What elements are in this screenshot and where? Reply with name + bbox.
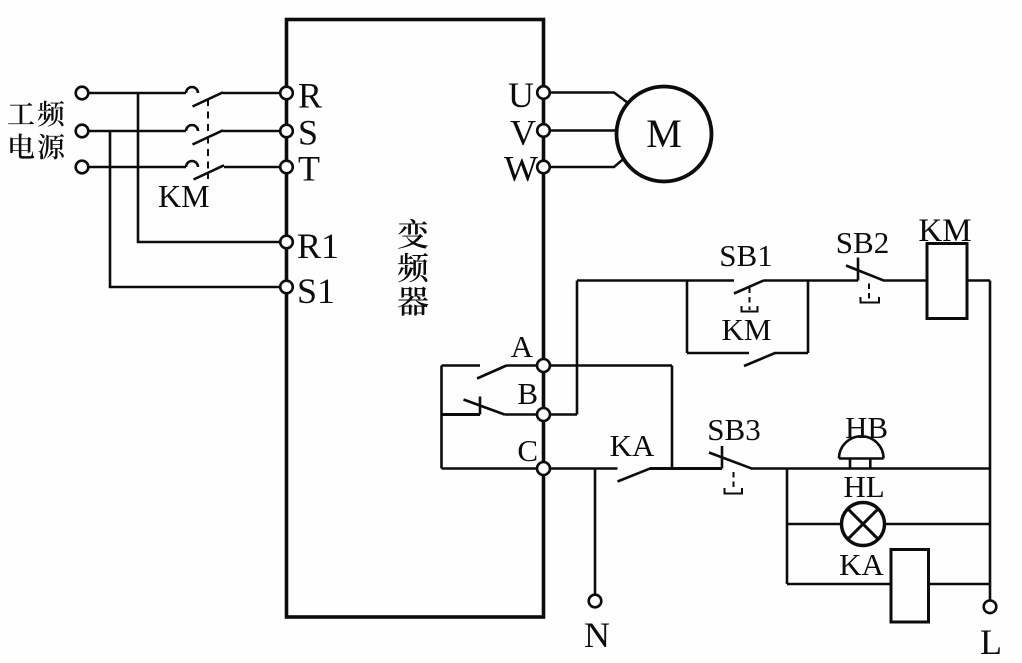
- wire: KM pole3 to terminal T: [224, 166, 281, 169]
- svg-text:T: T: [298, 149, 320, 189]
- terminal U on inverter: [537, 86, 550, 99]
- terminal R1 on inverter: [280, 236, 293, 249]
- wire: lamp network left rail: [786, 469, 789, 585]
- svg-text:M: M: [646, 111, 682, 156]
- label N: [584, 615, 610, 655]
- label KM (main contactor): [158, 178, 210, 214]
- wire: left rail to terminal C: [442, 467, 538, 470]
- terminal C on inverter: [537, 462, 550, 475]
- contactor KM main contact pole 2: [186, 125, 223, 145]
- label HB: [845, 410, 888, 445]
- wire: parallel branch right leg: [807, 281, 810, 354]
- terminal N: [589, 595, 602, 608]
- switch contact to terminal B (closed, with stop bar): [442, 397, 538, 415]
- label C: [517, 433, 538, 468]
- label B: [517, 376, 538, 411]
- inverter box 变频器: [287, 20, 544, 618]
- contactor KM main contact pole 1: [186, 87, 223, 107]
- svg-text:KA: KA: [610, 428, 655, 463]
- wire: R phase tap to terminal R1: [138, 93, 281, 242]
- terminal T on inverter: [280, 161, 293, 174]
- relay contact KA (open): [618, 468, 651, 481]
- switch contact to terminal A (open): [442, 366, 538, 379]
- svg-text:V: V: [510, 113, 536, 153]
- wire: SB1 to SB2: [764, 279, 858, 282]
- label T: [298, 149, 320, 189]
- wire: B to control line junction: [550, 281, 734, 415]
- terminal S1 on inverter: [280, 281, 293, 294]
- label SB1: [719, 238, 772, 273]
- label KA (contact): [610, 428, 655, 463]
- label S: [298, 113, 318, 153]
- svg-text:R: R: [298, 76, 322, 116]
- terminal V on inverter: [537, 124, 550, 137]
- label U: [508, 75, 534, 115]
- wire: phase3 to KM contact: [88, 166, 186, 169]
- svg-text:KM: KM: [918, 213, 971, 249]
- motor M: [617, 87, 712, 182]
- svg-text:C: C: [517, 433, 538, 468]
- wire: KA coil branch left: [787, 583, 891, 586]
- wire: KM coil to right rail: [967, 279, 990, 282]
- svg-text:KM: KM: [158, 178, 210, 214]
- indicator lamp HL: [842, 503, 885, 546]
- terminal B on inverter: [537, 408, 550, 421]
- svg-text:KA: KA: [839, 547, 884, 582]
- svg-text:W: W: [504, 149, 538, 189]
- wire: A to KA line: [550, 366, 672, 469]
- pushbutton SB1 (start, NO): [734, 280, 764, 311]
- label L: [980, 622, 1002, 662]
- svg-text:HB: HB: [845, 410, 888, 445]
- label W: [504, 149, 538, 189]
- wire: parallel branch left leg: [686, 281, 689, 354]
- wire: S phase tap to terminal S1: [110, 131, 281, 287]
- label HL: [843, 469, 884, 504]
- wire: C to KA contact: [550, 467, 618, 470]
- wire: V to motor: [550, 129, 618, 132]
- wire: right rail down to L: [989, 281, 992, 601]
- svg-text:SB2: SB2: [836, 225, 889, 260]
- wire: SB2 to KM coil: [885, 279, 928, 282]
- relay coil KA: [891, 550, 929, 623]
- svg-text:A: A: [511, 329, 534, 364]
- wire: SB3 to right rail (through HB): [752, 467, 990, 470]
- svg-text:SB3: SB3: [707, 412, 760, 447]
- svg-text:B: B: [517, 376, 538, 411]
- svg-text:S: S: [298, 113, 318, 153]
- label KM (coil): [918, 213, 971, 249]
- mechanical link of KM contacts (dashed): [207, 99, 209, 179]
- wire: drop to terminal N: [594, 469, 597, 595]
- wire: W to motor: [550, 156, 627, 167]
- label KM (auxiliary contact): [722, 312, 772, 347]
- label V: [510, 113, 536, 153]
- wire: HL branch: [787, 523, 990, 526]
- svg-text:L: L: [980, 622, 1002, 662]
- terminal L: [984, 601, 997, 614]
- terminal S on inverter: [280, 125, 293, 138]
- contactor coil KM: [927, 244, 967, 319]
- svg-text:HL: HL: [843, 469, 884, 504]
- terminal: mains phase 2: [76, 125, 89, 138]
- label 变频器 (frequency inverter): [398, 219, 428, 316]
- svg-text:U: U: [508, 75, 534, 115]
- wire: KA contact to SB3: [650, 467, 722, 470]
- buzzer HB: [839, 436, 884, 468]
- wire: KM pole2 to terminal S: [223, 130, 281, 133]
- label S1: [297, 271, 335, 311]
- terminal R on inverter: [280, 87, 293, 100]
- svg-text:N: N: [584, 615, 610, 655]
- label KA (coil): [839, 547, 884, 582]
- svg-text:KM: KM: [722, 312, 772, 347]
- svg-text:S1: S1: [297, 271, 335, 311]
- contactor KM auxiliary contact (self-hold, NO): [687, 353, 808, 366]
- contactor KM main contact pole 3: [186, 161, 224, 180]
- label 工频电源 (mains power source): [8, 101, 64, 160]
- svg-text:SB1: SB1: [719, 238, 772, 273]
- terminal W on inverter: [537, 161, 550, 174]
- pushbutton SB3 (NC): [709, 446, 753, 494]
- label R: [298, 76, 322, 116]
- label SB2: [836, 225, 889, 260]
- terminal: mains phase 3: [76, 161, 89, 174]
- label A: [511, 329, 534, 364]
- svg-text:R1: R1: [297, 226, 339, 266]
- label SB3: [707, 412, 760, 447]
- wire: left rail joining A/B switches to C: [440, 366, 443, 469]
- wire: phase2 to KM contact: [88, 130, 186, 133]
- terminal: mains phase 1: [76, 87, 89, 100]
- wire: phase1 to KM contact: [88, 92, 186, 95]
- pushbutton SB2 (stop, NC): [846, 258, 885, 303]
- wire: KA coil branch right: [929, 583, 991, 586]
- label R1: [297, 226, 339, 266]
- terminal A on inverter: [537, 359, 550, 372]
- wire: KM pole1 to terminal R: [223, 92, 281, 95]
- wire: U to motor: [550, 93, 628, 104]
